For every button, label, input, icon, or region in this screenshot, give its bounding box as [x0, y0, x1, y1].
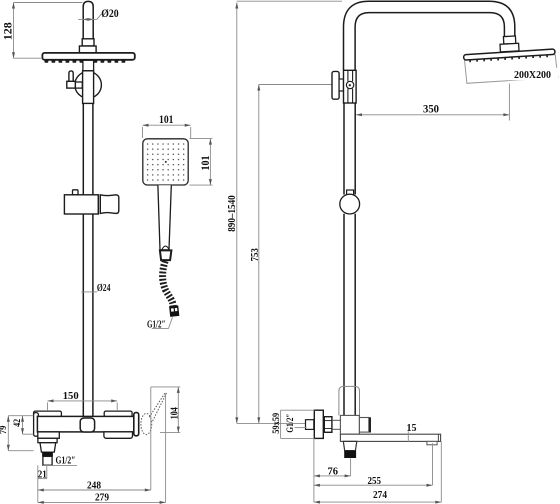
- spout bar: [340, 434, 440, 441]
- dim 279 right extension: [165, 393, 167, 502]
- head plate nozzle ticks: [470, 55, 547, 62]
- svg-text:128: 128: [3, 22, 15, 40]
- dim 753 line: [258, 85, 260, 424]
- dim 350 line: [356, 114, 510, 116]
- telescopic collar: [339, 386, 360, 415]
- slider double line: [98, 195, 100, 214]
- spout end line: [437, 434, 439, 441]
- hand shower handle: [158, 185, 171, 250]
- dim 890-1540 line: [236, 3, 238, 424]
- housing screw circle: [346, 81, 353, 88]
- outlet threaded stub: [43, 456, 52, 465]
- svg-text:G1/2″: G1/2″: [147, 319, 166, 330]
- svg-text:G1/2″: G1/2″: [56, 456, 76, 467]
- dim 150 line: [48, 400, 118, 402]
- wall escutcheon (right): [314, 410, 323, 438]
- svg-text:753: 753: [250, 248, 261, 261]
- head flange: [500, 43, 519, 52]
- diverter handle block: [67, 81, 76, 88]
- dim 21 left extension: [37, 465, 39, 502]
- overhead head face (parallelogram): [465, 55, 558, 84]
- 200X200 label box: [508, 68, 558, 80]
- wall bracket arm: [339, 79, 343, 91]
- svg-text:150: 150: [63, 390, 79, 402]
- dim 104 ticks: [151, 386, 181, 388]
- svg-text:79: 79: [0, 425, 8, 434]
- shower hose (ribbed): [163, 261, 174, 306]
- dim 42 line: [22, 416, 24, 435]
- slider knob: [73, 190, 79, 195]
- dim Ø20 leader: [78, 18, 97, 20]
- svg-text:200X200: 200X200: [514, 70, 551, 81]
- svg-text:59x59: 59x59: [272, 413, 282, 434]
- dim 890-1540 top tick: [237, 0, 342, 2]
- diverter valve body: [83, 71, 94, 104]
- spout outlet black nut: [344, 451, 356, 458]
- dim Ø24 leader: [81, 291, 97, 293]
- dim 350 right extension: [508, 84, 510, 121]
- hex nut facet lines: [324, 421, 332, 429]
- spout aerator tip: [427, 441, 437, 444]
- svg-text:104: 104: [170, 407, 181, 419]
- outlet black nut: [42, 452, 53, 456]
- overhead head plate (tilted): [464, 49, 556, 60]
- column pipe (right figure): [344, 103, 355, 415]
- faucet outlet block: [38, 432, 60, 438]
- dim bottom reference tick: [237, 422, 306, 424]
- dim 128 top tick: [14, 2, 83, 4]
- handle nut: [160, 250, 172, 260]
- faucet right bottom pad: [104, 432, 133, 438]
- hand shower head square: [143, 139, 188, 185]
- shower plate nozzles: [45, 60, 126, 63]
- riser pipe (slider to faucet): [83, 214, 93, 416]
- G1/2 underline (left outlet): [43, 464, 77, 466]
- handle tip arc: [162, 246, 169, 250]
- wall bracket plate: [332, 71, 339, 99]
- svg-text:255: 255: [368, 475, 382, 487]
- svg-text:274: 274: [373, 489, 387, 501]
- arm base flange: [79, 46, 96, 53]
- dim 279 line: [38, 501, 166, 503]
- diverter ball (right figure): [340, 194, 360, 214]
- dim 76 outlet extension: [350, 458, 352, 476]
- dim 101 top line: [143, 124, 191, 126]
- riser pipe (valve to slider): [83, 103, 93, 194]
- nut-elbow pipe: [332, 420, 341, 429]
- dim 274 line: [314, 501, 441, 503]
- dim 101 right extensions: [190, 138, 213, 140]
- svg-text:101: 101: [200, 155, 212, 170]
- dim 79 ticks: [8, 415, 33, 417]
- slider bracket left block: [64, 195, 98, 214]
- svg-text:890–1540: 890–1540: [227, 195, 238, 232]
- head connector nut: [503, 36, 515, 44]
- faucet left end cap: [34, 413, 39, 437]
- diverter handle lever: [69, 71, 73, 82]
- svg-text:42: 42: [12, 418, 22, 426]
- shower arm pipe (top, rounded cap): [83, 1, 93, 39]
- dim 101 right line: [209, 139, 211, 186]
- svg-text:279: 279: [95, 492, 109, 504]
- dim 128 vertical line: [13, 3, 15, 59]
- slider holder cup: [100, 195, 119, 214]
- dim 59x59 line: [280, 410, 282, 438]
- svg-text:Ø20: Ø20: [101, 8, 119, 20]
- top bend tube inner: [355, 13, 504, 71]
- lever cap (dotted side view): [141, 413, 152, 434]
- Ø20 pipe arrows: [83, 18, 93, 21]
- wall supply stub: [306, 420, 314, 430]
- riser pipe upper connector: [83, 60, 94, 71]
- supply hex nut: [324, 417, 332, 433]
- svg-text:350: 350: [423, 104, 439, 116]
- elbow outlet stub: [359, 418, 368, 433]
- G1/2 leader (right): [295, 427, 307, 429]
- housing inner lines: [348, 70, 353, 103]
- faucet right escutcheon pad: [104, 411, 132, 417]
- arm collar nut: [82, 39, 94, 46]
- svg-text:21: 21: [38, 470, 47, 481]
- hose end nut: [169, 305, 179, 317]
- svg-text:15: 15: [407, 423, 417, 434]
- housing screw dot: [349, 84, 351, 86]
- svg-text:Ø24: Ø24: [97, 283, 111, 294]
- dim 150 extensions: [47, 403, 49, 411]
- dim 248 line: [38, 489, 151, 491]
- dim 76 line: [314, 475, 351, 477]
- overhead shower plate: [42, 53, 134, 60]
- hose G1/2 leader: [152, 328, 169, 330]
- dim 42 bottom tick: [23, 433, 34, 435]
- wall extension line: [313, 438, 315, 502]
- dim 59x59 ticks: [281, 409, 315, 411]
- faucet center knob: [80, 418, 94, 432]
- diverter circle (left figure): [75, 72, 102, 99]
- outlet taper: [40, 443, 56, 452]
- dim 255 right extension: [432, 443, 434, 485]
- dim 15 tick: [407, 431, 409, 442]
- elbow body: [340, 415, 359, 434]
- spout outlet taper: [343, 441, 357, 450]
- hose hook tab: [347, 190, 354, 196]
- lever arm (dotted): [149, 393, 166, 422]
- dim 21 center extension: [46, 465, 48, 478]
- dim 104 line: [177, 387, 179, 433]
- dim 248 right extension: [150, 387, 152, 490]
- outlet flange: [38, 438, 57, 442]
- slider housing (right): [344, 70, 357, 103]
- dim 79 line: [7, 416, 9, 451]
- dim 255 line: [314, 484, 433, 486]
- diverter handle connector: [75, 82, 82, 88]
- dim 21 line: [38, 478, 47, 480]
- dim 128 bottom tick: [14, 57, 43, 59]
- dim 753 top tick: [259, 84, 332, 86]
- svg-text:76: 76: [328, 466, 339, 477]
- faucet left escutcheon pad: [34, 411, 62, 417]
- svg-text:101: 101: [159, 114, 174, 126]
- dim 274 right extension: [440, 441, 442, 502]
- svg-text:G1/2″: G1/2″: [286, 414, 296, 433]
- hand shower center dot: [165, 161, 167, 163]
- faucet body: [37, 416, 138, 432]
- svg-text:248: 248: [87, 479, 101, 491]
- dim 101 top extensions: [142, 127, 144, 138]
- hand shower spray dots: [147, 143, 185, 181]
- faucet right end cap: [134, 413, 139, 436]
- elbow stub cap: [369, 417, 371, 432]
- top bend tube outer: [344, 1, 515, 70]
